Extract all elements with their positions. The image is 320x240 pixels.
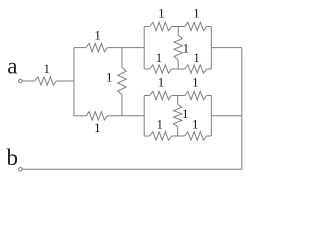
resistor R4 vertical value 1 (between rails) <box>118 48 126 116</box>
wire R2 to bridge1 left (top rail) <box>108 47 145 49</box>
resistor R6 value 1 (bridge1 top-right) <box>185 22 207 30</box>
wire bridge2 bottom middle node <box>172 135 185 137</box>
svg-text:1: 1 <box>157 117 164 132</box>
svg-text:1: 1 <box>156 50 163 65</box>
resistor R5 value 1 (bridge1 top-left) <box>150 22 172 30</box>
bridge2 left vertical wire <box>143 96 145 137</box>
resistor R3 value 1 <box>86 112 108 120</box>
resistor R8 value 1 (bridge1 bottom-right) <box>185 65 207 73</box>
bridge1 right vertical wire <box>210 27 212 70</box>
wire node A to R2 <box>74 47 86 49</box>
wire R6 to bridge1 top-right corner <box>207 26 212 28</box>
svg-text:a: a <box>7 54 17 79</box>
wire bridge2 top middle node <box>172 95 185 97</box>
resistor R12 value 1 (bridge2 bottom-left) <box>150 132 172 140</box>
resistor R7 value 1 (bridge1 bottom-left) <box>150 65 172 73</box>
wire R3 to bridge2 left (bottom rail) <box>108 115 145 117</box>
wire R1 to node A <box>57 80 75 82</box>
resistor R14 vertical value 1 (bridge2 middle) <box>174 96 182 137</box>
bridge2 right vertical wire <box>210 96 212 137</box>
svg-text:1: 1 <box>192 75 199 90</box>
svg-text:1: 1 <box>158 75 165 90</box>
svg-text:1: 1 <box>183 41 190 56</box>
wire R8 to bridge1 bottom-right corner <box>207 68 212 70</box>
svg-text:1: 1 <box>192 117 199 132</box>
wire bridge1 bottom-left corner to R7 <box>144 68 150 70</box>
resistor R13 value 1 (bridge2 bottom-right) <box>185 132 207 140</box>
wire node A to R3 <box>74 115 86 117</box>
wire b rail <box>22 168 242 170</box>
wire bridge1 top middle node <box>172 26 185 28</box>
resistor R1 value 1 <box>35 77 57 85</box>
resistor R10 value 1 (bridge2 top-left) <box>150 91 172 99</box>
wire bridge2 top-left corner to R10 <box>144 95 150 97</box>
svg-text:1: 1 <box>193 50 200 65</box>
resistor R9 vertical value 1 (bridge1 middle) <box>174 27 182 70</box>
svg-text:1: 1 <box>94 120 101 135</box>
wire bridge1 top-left corner to R5 <box>144 26 150 28</box>
node A vertical wire <box>73 48 75 116</box>
wire a lead <box>22 80 35 82</box>
wire right vertical (outputs to b rail) <box>241 48 243 170</box>
svg-text:1: 1 <box>193 6 200 21</box>
wire bridge1 output <box>211 47 242 49</box>
svg-text:b: b <box>7 145 19 170</box>
svg-text:1: 1 <box>182 106 189 121</box>
resistor R2 value 1 <box>86 43 108 51</box>
wire bridge2 output <box>211 115 242 117</box>
resistor R11 value 1 (bridge2 top-right) <box>185 91 207 99</box>
wire R13 to bridge2 bottom-right corner <box>207 135 212 137</box>
terminal a circle <box>19 79 23 83</box>
svg-text:1: 1 <box>158 6 165 21</box>
wire R11 to bridge2 top-right corner <box>207 95 212 97</box>
svg-text:1: 1 <box>106 69 113 84</box>
wire bridge2 bottom-left corner to R12 <box>144 135 150 137</box>
svg-text:1: 1 <box>44 61 51 76</box>
wire bridge1 bottom middle node <box>172 68 185 70</box>
bridge1 left vertical wire <box>143 27 145 70</box>
svg-text:1: 1 <box>94 28 101 43</box>
terminal b circle <box>19 168 23 172</box>
